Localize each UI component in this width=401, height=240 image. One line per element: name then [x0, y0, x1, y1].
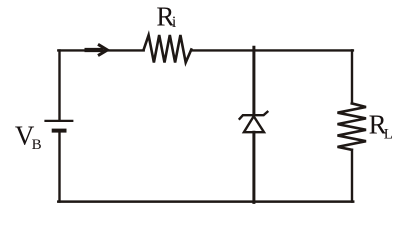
- wire middle branch lower (zener to bottom): [252, 132, 255, 202]
- label V_B: [15, 121, 42, 154]
- wire bottom horizontal: [58, 200, 353, 203]
- wire left vertical upper (to battery): [58, 50, 60, 119]
- zener diode triangle (anode): [244, 116, 264, 132]
- wire left vertical lower (battery to bottom): [58, 131, 60, 202]
- wire middle branch upper (junction to zener): [252, 47, 255, 114]
- resistor R_L zigzag: [338, 103, 367, 149]
- current arrow: [85, 44, 108, 55]
- wire top-left horizontal: [58, 49, 143, 51]
- label R_i: [156, 2, 177, 32]
- wire right vertical upper: [351, 50, 353, 103]
- zener diode cathode bar with bent ends: [239, 111, 268, 120]
- svg-text:i: i: [172, 14, 177, 31]
- wire top-right horizontal: [191, 49, 353, 51]
- wire right vertical lower: [351, 150, 353, 202]
- label R_L: [369, 110, 393, 143]
- battery V_B long plate: [44, 120, 73, 122]
- svg-text:L: L: [384, 127, 393, 143]
- svg-text:B: B: [32, 137, 42, 153]
- resistor R_i zigzag: [144, 35, 192, 63]
- battery V_B short thick plate: [52, 129, 67, 133]
